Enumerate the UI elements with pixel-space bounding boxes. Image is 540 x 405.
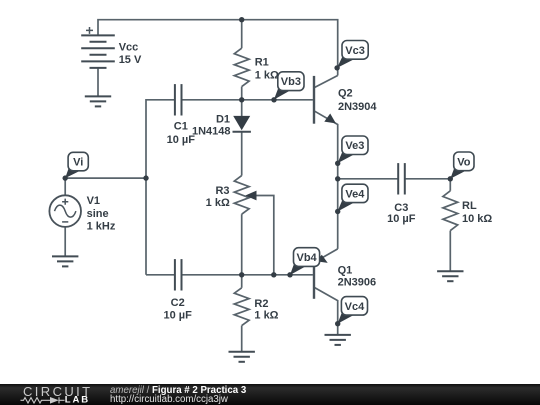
svg-text:1 kΩ: 1 kΩ	[255, 70, 279, 82]
svg-text:1N4148: 1N4148	[192, 125, 231, 137]
svg-text:1 kΩ: 1 kΩ	[206, 197, 230, 209]
svg-text:Q1: Q1	[338, 265, 353, 277]
svg-text:Ve3: Ve3	[345, 140, 364, 152]
svg-text:Vb4: Vb4	[297, 252, 318, 264]
svg-text:10 µF: 10 µF	[387, 213, 416, 225]
svg-text:Vc4: Vc4	[345, 301, 365, 313]
svg-text:Vo: Vo	[457, 156, 471, 168]
svg-text:R1: R1	[255, 57, 269, 69]
svg-text:C1: C1	[174, 121, 188, 133]
svg-text:15 V: 15 V	[119, 54, 142, 66]
svg-text:Vc3: Vc3	[345, 45, 365, 57]
svg-text:V1: V1	[87, 195, 100, 207]
svg-text:Vb3: Vb3	[281, 76, 301, 88]
svg-text:10 µF: 10 µF	[164, 310, 193, 322]
svg-text:2N3904: 2N3904	[338, 101, 377, 113]
svg-text:R2: R2	[254, 298, 268, 310]
svg-text:sine: sine	[87, 208, 109, 220]
svg-text:1 kHz: 1 kHz	[87, 221, 116, 233]
svg-text:1 kΩ: 1 kΩ	[254, 310, 278, 322]
svg-text:Ve4: Ve4	[345, 188, 365, 200]
svg-text:RL: RL	[462, 200, 477, 212]
svg-text:http://circuitlab.com/ccja3jw: http://circuitlab.com/ccja3jw	[110, 394, 229, 405]
svg-text:10 µF: 10 µF	[167, 134, 196, 146]
svg-text:2N3906: 2N3906	[338, 277, 377, 289]
svg-text:D1: D1	[216, 113, 230, 125]
svg-text:10 kΩ: 10 kΩ	[462, 213, 492, 225]
svg-text:C2: C2	[171, 297, 185, 309]
svg-text:Vcc: Vcc	[119, 42, 139, 54]
svg-text:Q2: Q2	[338, 87, 353, 99]
svg-text:LAB: LAB	[65, 395, 90, 405]
svg-text:C3: C3	[394, 202, 408, 214]
svg-text:Vi: Vi	[73, 157, 83, 169]
svg-text:R3: R3	[215, 185, 229, 197]
